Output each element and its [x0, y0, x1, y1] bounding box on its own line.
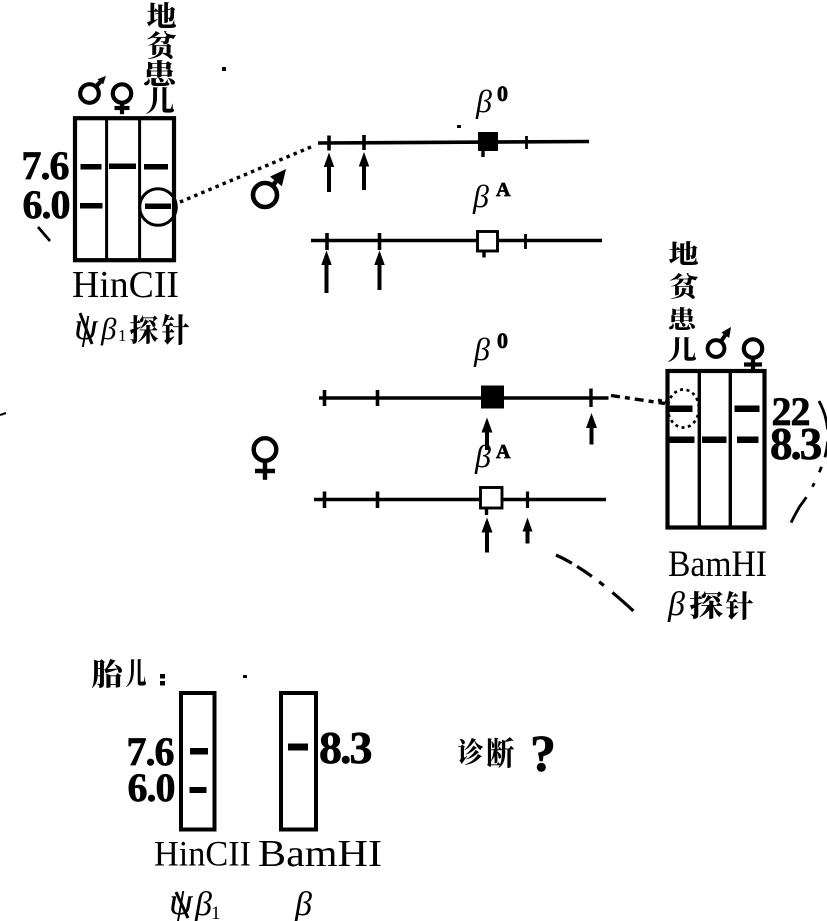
band 7.6 lane 3	[144, 164, 168, 170]
svg-text:BamHI: BamHI	[258, 833, 382, 875]
male symbol (gel 2)	[708, 327, 731, 357]
male symbol (paternal alleles)	[253, 169, 286, 207]
dotted leader into gel 2	[658, 400, 666, 402]
svg-text:?: ?	[530, 726, 556, 783]
vertical label: thalassemia child (gel 2)	[668, 241, 698, 362]
male symbol (father, gel 1)	[80, 76, 106, 103]
svg-text:β: β	[473, 331, 490, 367]
fetal lane 2 frame (BamHI)	[281, 693, 316, 830]
tick 3	[524, 234, 527, 249]
female symbol (maternal alleles)	[254, 438, 277, 480]
band 22 lane 3	[735, 406, 760, 413]
svg-text:A: A	[496, 441, 511, 463]
band 8.3 lane 1	[670, 437, 695, 444]
tick 2	[378, 233, 382, 250]
allele label beta-A (paternal)	[472, 178, 511, 214]
svg-text:1: 1	[118, 326, 127, 345]
svg-text:β: β	[667, 586, 685, 623]
svg-text:β: β	[472, 178, 489, 214]
allele label beta-0 (paternal)	[475, 81, 508, 119]
band 7.6 lane 1	[81, 164, 102, 170]
gel 1 lane divider 1	[105, 118, 108, 260]
tick 1	[323, 390, 327, 406]
dashed curve toward BamHI label	[556, 555, 643, 620]
map line maternal beta-A	[314, 498, 606, 502]
svg-text:0: 0	[497, 81, 508, 106]
tick 1	[327, 136, 331, 151]
svg-text:β: β	[294, 886, 312, 921]
tick 2	[376, 390, 380, 406]
svg-text:6.0: 6.0	[23, 182, 70, 227]
dotted circle highlight on gel 2 lane 1	[668, 390, 699, 428]
tick 3	[589, 389, 592, 408]
tick 3	[525, 136, 528, 149]
stray mark (comma)	[38, 227, 50, 241]
cut-site arrow 1	[324, 153, 335, 193]
speck	[243, 675, 247, 678]
fetal band 6.0	[190, 787, 207, 793]
cut-site arrow at gene	[482, 518, 493, 553]
svg-text:BamHI: BamHI	[668, 544, 767, 585]
tick 1	[325, 233, 329, 250]
circle highlight on gel 1 lane 3	[140, 189, 177, 226]
tick 1	[323, 492, 327, 509]
svg-text:A: A	[496, 179, 511, 201]
band 7.6 lane 2	[109, 164, 136, 170]
svg-text:1: 1	[211, 903, 221, 921]
cut-site arrow 1	[321, 251, 332, 294]
fetal band 7.6	[190, 748, 208, 755]
svg-text:HinCII: HinCII	[72, 264, 179, 306]
gel 1 frame	[75, 118, 174, 260]
gel 2 lane divider 2	[729, 371, 732, 527]
svg-text:β: β	[194, 886, 212, 921]
vertical label: thalassemia child (gel 1)	[144, 2, 176, 114]
probe label beta	[667, 586, 753, 623]
svg-text:0: 0	[497, 328, 508, 353]
svg-text:HinCII: HinCII	[154, 834, 251, 874]
svg-text:β: β	[100, 311, 117, 346]
map line paternal beta-0	[318, 142, 589, 144]
cut-site arrow right	[523, 518, 533, 544]
dotted leader line from circled band to paternal map	[180, 147, 312, 203]
tick 3	[526, 492, 529, 509]
speck	[222, 67, 226, 71]
cut-site arrow at gene	[482, 418, 493, 451]
svg-text:8.3: 8.3	[319, 722, 372, 773]
diagnosis label	[458, 726, 556, 783]
dashed leader to BamHI gel	[611, 396, 665, 404]
filled gene box (beta-0 mutation)	[478, 132, 498, 151]
probe label psi-beta-1	[74, 306, 189, 348]
svg-text:β: β	[475, 83, 492, 119]
band 8.3 lane 2	[702, 437, 727, 444]
open gene box (normal beta-A)	[478, 232, 498, 252]
svg-text:β: β	[474, 438, 491, 474]
cut-site arrow 2	[359, 152, 370, 190]
band 6.0 lane 1	[80, 203, 103, 209]
gel 1 lane divider 2	[138, 118, 141, 260]
cut-site arrow right	[586, 413, 597, 445]
tick 2	[362, 135, 366, 150]
tick 2	[376, 492, 380, 509]
allele label beta-A (maternal)	[474, 438, 511, 474]
band 8.3 lane 3	[737, 437, 759, 444]
cut-site arrow 2	[374, 251, 385, 291]
svg-text:6.0: 6.0	[128, 765, 175, 810]
band 22 lane 1 (dot-circled)	[670, 406, 693, 413]
label: fetus	[92, 659, 165, 688]
svg-text:8.3: 8.3	[770, 419, 821, 469]
open gene box (normal beta-A, maternal)	[481, 488, 503, 509]
dashed bracket curve right of labels	[789, 401, 827, 527]
fetal band 8.3	[288, 744, 308, 751]
probe label psi-beta-1 (fetal)	[169, 881, 221, 921]
filled gene box (beta-0 mutation, maternal)	[481, 386, 504, 409]
speck	[457, 125, 461, 128]
allele label beta-0 (maternal)	[473, 328, 508, 367]
map line paternal beta-A	[311, 239, 602, 243]
band 6.0 lane 3 (circled)	[145, 204, 171, 210]
female symbol (gel 2)	[744, 339, 762, 369]
left edge tick	[0, 413, 6, 415]
fetal lane 1 frame (HinCII)	[181, 693, 215, 830]
female symbol (mother, gel 1)	[113, 84, 131, 114]
gel 2 frame	[668, 371, 765, 528]
gel 2 lane divider 1	[698, 371, 701, 527]
map line maternal beta-0	[319, 396, 609, 400]
